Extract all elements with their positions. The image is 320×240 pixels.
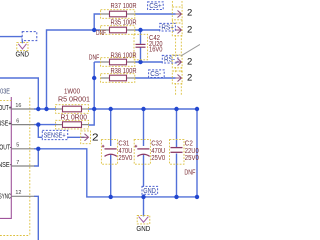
wire: [135, 29, 176, 31]
svg-text:R1 0R00: R1 0R00: [61, 112, 88, 121]
wire: [34, 124, 57, 126]
IC selection: [0, 98, 30, 236]
svg-text:OUT+: OUT+: [0, 103, 12, 112]
resistor R36: [89, 50, 137, 66]
svg-text:SENSE-: SENSE-: [0, 160, 12, 169]
pin 6 SENSE+: [11, 124, 34, 126]
svg-text:25V0: 25V0: [185, 153, 199, 162]
svg-text:25V0: 25V0: [118, 153, 132, 162]
svg-text:R5 0R001: R5 0R001: [58, 94, 90, 103]
ground selection: [17, 42, 28, 50]
wire: [94, 61, 100, 63]
svg-text:2: 2: [187, 25, 192, 36]
ground bottom: [136, 216, 150, 234]
net label GND: [142, 186, 158, 194]
svg-text:16: 16: [15, 103, 21, 109]
capacitor C32: [134, 139, 165, 165]
wire: [68, 136, 85, 138]
svg-text:2: 2: [187, 56, 192, 67]
wire: [143, 109, 145, 146]
wire: [38, 125, 42, 138]
svg-text:6: 6: [16, 118, 19, 124]
port CS-: [172, 71, 182, 84]
node junction dots: [36, 28, 199, 199]
svg-text:R38 100R: R38 100R: [111, 66, 137, 75]
no-connect blue dashed box: [22, 32, 37, 41]
svg-text:R37 100R: R37 100R: [111, 1, 137, 10]
svg-text:OUT-: OUT-: [0, 143, 12, 152]
wire: [34, 109, 197, 197]
port CS+: [172, 7, 182, 20]
svg-text:5: 5: [16, 143, 19, 149]
resistor R37: [100, 1, 137, 18]
wire: [135, 77, 176, 79]
wire: [0, 37, 22, 44]
wire: [89, 62, 95, 125]
net label CS-: [149, 70, 165, 78]
wire: [110, 109, 112, 146]
svg-text:16V0: 16V0: [149, 45, 163, 54]
port RS+: [172, 23, 182, 36]
pin 7 SENSE-: [11, 165, 34, 167]
svg-text:GND: GND: [143, 188, 156, 195]
capacitor C2: [170, 139, 199, 177]
wire: [135, 61, 176, 63]
svg-text:DNF: DNF: [89, 52, 100, 61]
svg-text:SENSE+: SENSE+: [44, 133, 66, 140]
op-amp U? IC body edge: [0, 97, 11, 218]
pin 16 OUT+: [11, 108, 34, 110]
wire: [0, 78, 38, 109]
svg-text:DNF: DNF: [96, 28, 106, 37]
net label SENSE+: [42, 130, 67, 139]
capacitor C42: [134, 33, 163, 60]
resistor R35: [96, 17, 137, 37]
resistor R1: [56, 112, 89, 129]
svg-text:DNF: DNF: [184, 168, 195, 177]
net label CS+: [148, 2, 164, 10]
wire: [47, 30, 101, 109]
resistor R38: [100, 66, 137, 82]
svg-text:CS+: CS+: [149, 3, 162, 10]
wire: [143, 154, 145, 197]
wire: [176, 154, 178, 197]
ground: [18, 44, 26, 49]
svg-text:RS-: RS-: [164, 57, 176, 64]
svg-text:CS-: CS-: [150, 71, 162, 78]
svg-text:GND: GND: [16, 49, 30, 58]
port SENSE+: [81, 131, 91, 144]
wire: [88, 108, 197, 110]
diagonal line: [181, 44, 200, 56]
resistor R5: [56, 86, 91, 113]
wire: [135, 13, 176, 15]
svg-text:R35 100R: R35 100R: [111, 17, 137, 26]
wire: [110, 154, 112, 197]
wire: [34, 196, 38, 240]
svg-text:25V0: 25V0: [151, 153, 165, 162]
wire: [176, 109, 178, 147]
svg-text:2: 2: [187, 8, 192, 19]
pin 12 SYNC: [11, 195, 34, 197]
svg-text:2: 2: [187, 72, 192, 83]
selection dashes port column: [172, 1, 182, 96]
wire: [143, 197, 145, 217]
wire: [34, 149, 38, 166]
svg-text:R36 100R: R36 100R: [111, 50, 137, 59]
svg-text:2: 2: [92, 133, 99, 144]
svg-text:SYNC: SYNC: [0, 191, 11, 200]
port RS-: [172, 55, 182, 68]
svg-text:7: 7: [16, 160, 19, 166]
wire: [94, 14, 100, 30]
pin 5 OUT-: [11, 148, 34, 150]
net label RS-: [162, 55, 178, 63]
svg-text:SENSE+: SENSE+: [0, 118, 12, 127]
wire: [34, 108, 57, 110]
wire: [140, 30, 142, 44]
svg-text:7003E: 7003E: [0, 89, 10, 96]
net label RS+: [160, 23, 176, 31]
wire: [140, 47, 142, 62]
svg-text:GND: GND: [136, 224, 150, 233]
svg-text:12: 12: [15, 190, 21, 196]
capacitor C31: [101, 139, 132, 165]
